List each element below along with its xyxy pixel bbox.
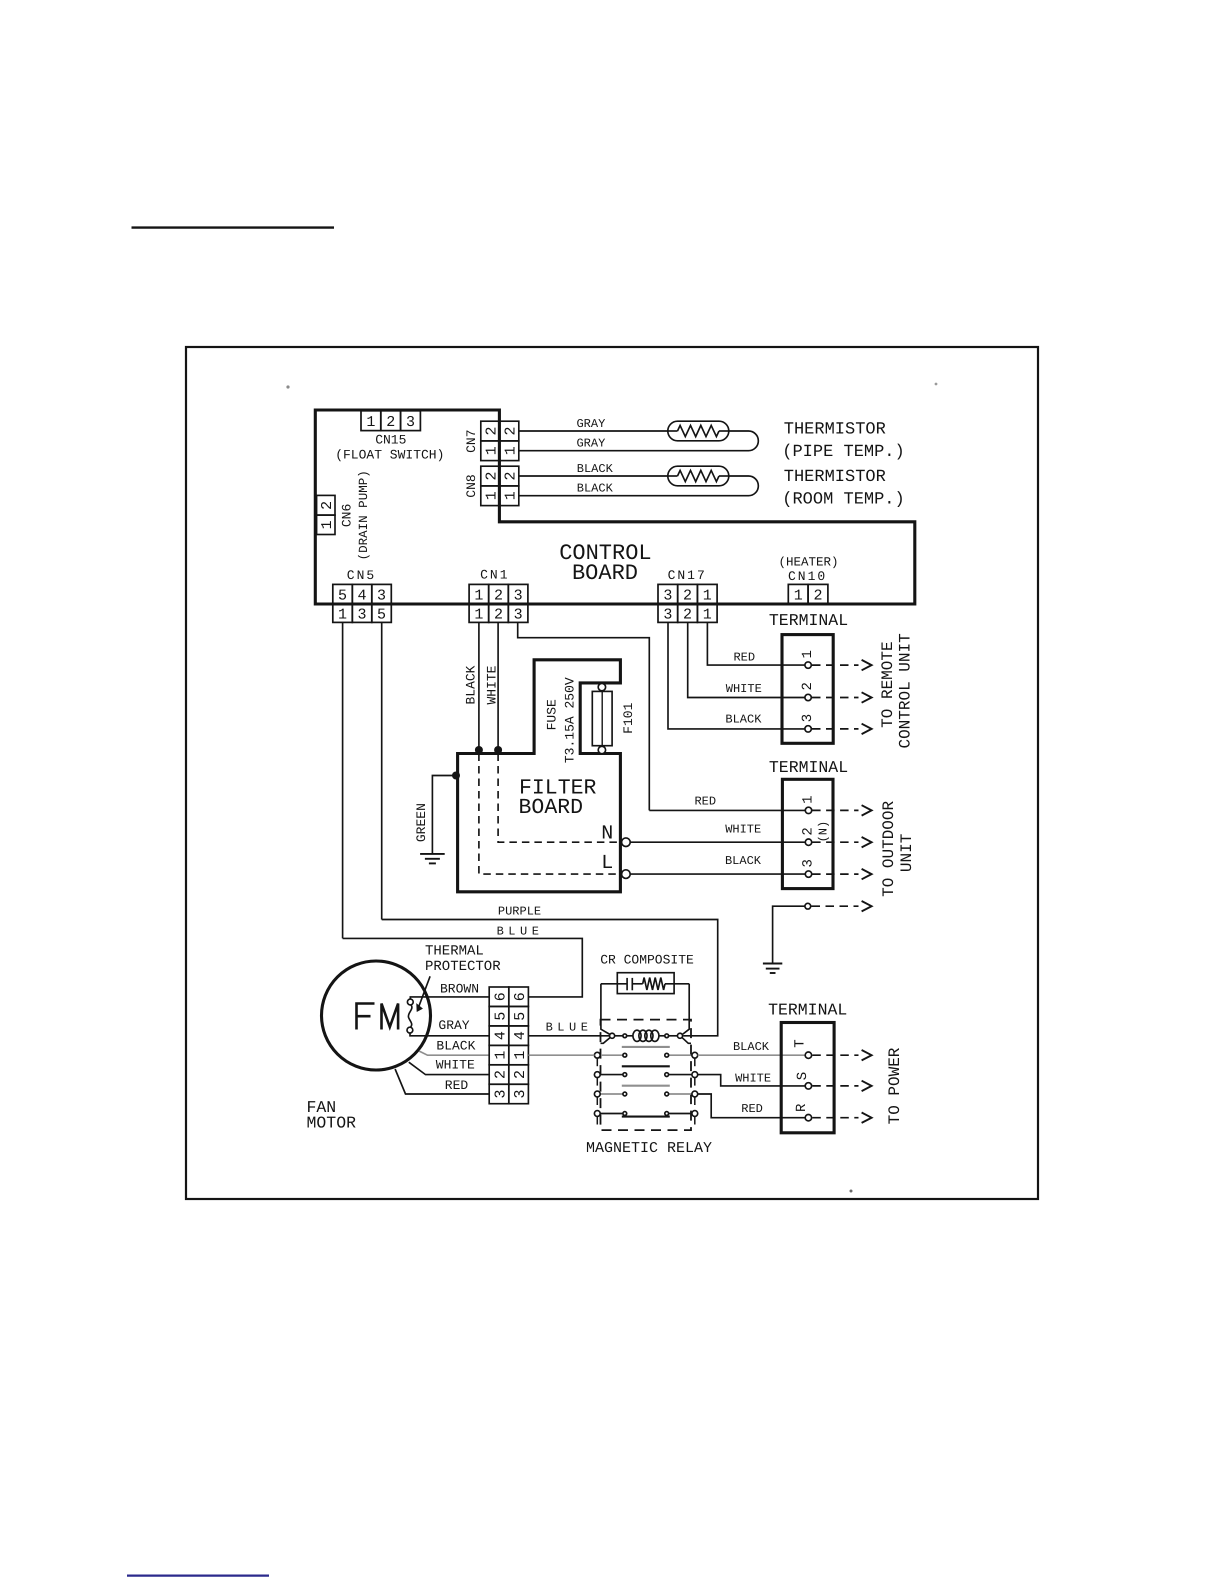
wire green to ground (432, 776, 456, 854)
wire white motor to pin2 (409, 1062, 489, 1074)
svg-text:(N): (N) (817, 821, 831, 843)
wire CN17 pin1 red (707, 622, 805, 665)
svg-text:BLUE: BLUE (546, 1020, 593, 1034)
fuse terminal bottom (598, 746, 605, 753)
svg-text:THERMAL: THERMAL (425, 944, 484, 960)
thermal protector element (407, 999, 413, 1033)
earth pin circle (805, 903, 811, 909)
svg-text:1: 1 (484, 491, 501, 500)
svg-text:5: 5 (492, 1012, 509, 1021)
connector CN1 pins 1 2 3 / 1 2 3 (469, 584, 528, 623)
terminal block outdoor (782, 779, 833, 888)
terminal block remote control (782, 635, 833, 744)
svg-text:3: 3 (663, 606, 672, 623)
svg-text:CN17: CN17 (668, 568, 707, 583)
svg-text:CN1: CN1 (480, 568, 509, 583)
svg-text:2: 2 (494, 606, 503, 623)
wire black from L to outdoor 3 (630, 873, 805, 875)
svg-text:CN15: CN15 (375, 432, 406, 447)
wire red relay row3 to power terminal (698, 1094, 806, 1118)
svg-text:6: 6 (512, 992, 529, 1001)
relay contact row 1 (black) bar (622, 1046, 670, 1048)
svg-text:2: 2 (484, 471, 501, 480)
svg-text:WHITE: WHITE (436, 1058, 475, 1073)
outdoor pin 2 (N) (805, 839, 811, 845)
wire CN1 pin3 red to outdoor terminal (518, 622, 650, 810)
svg-text:MAGNETIC RELAY: MAGNETIC RELAY (586, 1140, 712, 1157)
svg-text:2: 2 (503, 426, 520, 435)
svg-text:4: 4 (512, 1031, 529, 1040)
svg-text:2: 2 (492, 1070, 509, 1079)
svg-text:T3.15A 250V: T3.15A 250V (563, 677, 578, 763)
terminal L circle (622, 870, 631, 879)
ground symbol filter board (420, 854, 445, 864)
svg-text:TERMINAL: TERMINAL (769, 611, 848, 630)
svg-text:BROWN: BROWN (440, 982, 479, 997)
svg-text:THERMISTOR: THERMISTOR (784, 468, 886, 487)
svg-text:1: 1 (794, 587, 803, 604)
wire red motor to pin3 (395, 1069, 489, 1094)
relay contact row 1 (black) contacts (594, 1052, 697, 1066)
label FM (357, 1004, 399, 1030)
wire red to outdoor 1 (649, 809, 805, 811)
svg-text:THERMISTOR: THERMISTOR (784, 420, 886, 439)
wire CN17 pin3 black (668, 622, 805, 729)
thermistor pipe temp element (668, 421, 759, 451)
svg-text:BLUE: BLUE (497, 924, 544, 938)
svg-text:5: 5 (512, 1012, 529, 1021)
svg-text:RED: RED (694, 795, 716, 809)
svg-text:CN10: CN10 (788, 569, 827, 584)
svg-text:CN7: CN7 (464, 429, 479, 452)
fuse terminal top (598, 683, 605, 690)
relay contact row 3 (red) contacts (594, 1091, 697, 1105)
dashed lead remote 3 (812, 728, 859, 730)
svg-text:3: 3 (377, 587, 386, 604)
svg-text:3: 3 (800, 859, 816, 867)
diagram outer border (186, 347, 1038, 1199)
wire white relay row2 to power terminal (698, 1075, 806, 1086)
svg-text:BLACK: BLACK (463, 665, 478, 704)
wire CR left to coil (601, 984, 610, 1034)
relay contact row 2 (white) contacts (594, 1072, 697, 1086)
dashed lead power T (812, 1054, 858, 1056)
wire purple run (382, 920, 718, 1036)
svg-text:PURPLE: PURPLE (498, 905, 541, 919)
thermistor room temp element (668, 466, 759, 496)
dashed lead power S (812, 1085, 858, 1087)
svg-text:1: 1 (319, 520, 336, 529)
relay contact row 4 contacts (594, 1111, 697, 1125)
svg-text:6: 6 (492, 992, 509, 1001)
svg-text:UNIT: UNIT (898, 834, 916, 872)
relay contact row 2 (white) bar (622, 1065, 670, 1067)
terminal N circle (622, 838, 631, 847)
wire CN5 pin5 purple vertical (381, 622, 383, 919)
svg-text:1: 1 (492, 1051, 509, 1060)
wire blue connector pin4 to coil (528, 1035, 609, 1037)
wire CN7 pin2 gray to thermistor (519, 430, 668, 432)
svg-text:1: 1 (366, 414, 375, 431)
power pin S (805, 1083, 811, 1089)
svg-text:TO REMOTE: TO REMOTE (879, 641, 897, 727)
svg-text:3: 3 (512, 1089, 529, 1098)
svg-text:3: 3 (358, 606, 367, 623)
filter board outline (458, 660, 621, 892)
relay coil (610, 1030, 683, 1041)
connector CN15 (float switch) pins 1 2 3 (361, 411, 420, 431)
svg-text:CR COMPOSITE: CR COMPOSITE (600, 953, 694, 968)
bottom rule line (blue) (127, 1574, 269, 1576)
dashed black path inside filter board to L (479, 754, 621, 875)
svg-text:TERMINAL: TERMINAL (768, 1001, 847, 1020)
svg-text:WHITE: WHITE (725, 822, 761, 836)
dashed lead outdoor 1 (812, 809, 858, 811)
wire black motor to pin1 (419, 1051, 489, 1055)
svg-text:2: 2 (800, 827, 816, 835)
svg-text:GRAY: GRAY (576, 437, 605, 451)
wire CN8 pin2 black to thermistor (519, 475, 668, 477)
dashed lead outdoor 3 (812, 873, 858, 875)
svg-text:1: 1 (484, 446, 501, 455)
wire earth to ground (773, 906, 805, 963)
svg-text:GREEN: GREEN (414, 803, 429, 842)
relay contact row 3 (red) bar (622, 1085, 670, 1087)
svg-text:BLACK: BLACK (725, 854, 762, 868)
connector CN5 pins 5 4 3 / 1 3 5 (333, 584, 392, 623)
svg-text:1: 1 (800, 795, 816, 803)
junction dot (475, 746, 483, 754)
svg-text:WHITE: WHITE (484, 665, 499, 704)
wire CN17 pin2 white (688, 622, 805, 697)
svg-text:1: 1 (474, 587, 483, 604)
dashed lead earth (812, 905, 859, 907)
svg-text:1: 1 (338, 606, 347, 623)
svg-text:3: 3 (492, 1089, 509, 1098)
coil link right (682, 1038, 691, 1044)
ground symbol outdoor (763, 964, 782, 974)
dashed lead remote 1 (812, 664, 859, 666)
dashed lead power R (812, 1117, 858, 1119)
svg-text:BLACK: BLACK (577, 462, 614, 476)
dashed white path inside filter board to N (498, 754, 621, 843)
svg-text:1: 1 (503, 491, 520, 500)
wire CN1 pin2 white to filter board (497, 622, 499, 748)
svg-text:1: 1 (800, 650, 816, 658)
junction dot (494, 746, 502, 754)
svg-text:S: S (795, 1072, 811, 1080)
svg-text:FUSE: FUSE (544, 699, 559, 730)
top rule line (132, 226, 335, 228)
outdoor pin 1 (805, 807, 811, 813)
relay contact row 4 bar (622, 1116, 670, 1118)
svg-text:2: 2 (386, 414, 395, 431)
svg-text:3: 3 (514, 587, 523, 604)
svg-text:F101: F101 (621, 702, 636, 733)
fan motor circle FM (322, 961, 431, 1070)
svg-text:(DRAIN PUMP): (DRAIN PUMP) (357, 470, 371, 560)
svg-text:TERMINAL: TERMINAL (769, 758, 848, 777)
svg-text:TO POWER: TO POWER (886, 1047, 904, 1124)
svg-text:RED: RED (741, 1102, 763, 1116)
svg-text:(PIPE TEMP.): (PIPE TEMP.) (782, 443, 904, 462)
wire CN1 pin1 black to filter board (478, 622, 480, 748)
svg-text:(HEATER): (HEATER) (778, 556, 838, 570)
svg-text:1: 1 (703, 606, 712, 623)
svg-text:CN5: CN5 (347, 568, 376, 583)
svg-text:2: 2 (683, 587, 692, 604)
svg-text:PROTECTOR: PROTECTOR (425, 959, 501, 975)
svg-text:1: 1 (474, 606, 483, 623)
svg-text:5: 5 (377, 606, 386, 623)
junction dot green (452, 772, 460, 780)
scan speck top left (286, 385, 289, 388)
wire black relay row1 to power terminal (528, 1054, 594, 1056)
control board outline (315, 410, 915, 604)
svg-text:BOARD: BOARD (572, 561, 638, 586)
scan speck top right (935, 383, 938, 386)
svg-text:CONTROL UNIT: CONTROL UNIT (896, 633, 914, 748)
dashed lead remote 2 (812, 697, 859, 699)
svg-text:BLACK: BLACK (725, 713, 762, 727)
wire white from N to outdoor 2 (630, 841, 805, 843)
svg-text:4: 4 (492, 1031, 509, 1040)
remote pin 2 (805, 694, 811, 700)
outdoor pin 3 (805, 871, 811, 877)
svg-text:(FLOAT SWITCH): (FLOAT SWITCH) (335, 447, 444, 462)
power pin R (805, 1115, 811, 1121)
svg-text:RED: RED (733, 651, 755, 665)
svg-text:2: 2 (813, 587, 822, 604)
connector CN7 pins 2 1 (481, 421, 520, 460)
CR composite component (capacitor + resistor) (601, 973, 689, 994)
svg-text:CN8: CN8 (464, 474, 479, 497)
svg-text:2: 2 (319, 501, 336, 510)
wire CN5 pin1 blue vertical (342, 622, 344, 938)
svg-text:T: T (793, 1039, 809, 1047)
dashed lead outdoor 2 (812, 841, 858, 843)
wire blue run (343, 938, 583, 997)
svg-text:BOARD: BOARD (519, 796, 584, 820)
svg-text:L: L (601, 852, 613, 875)
svg-text:WHITE: WHITE (726, 682, 762, 696)
svg-text:2: 2 (683, 606, 692, 623)
power pin T (805, 1052, 811, 1058)
svg-text:WHITE: WHITE (735, 1071, 771, 1085)
svg-text:3: 3 (406, 414, 415, 431)
svg-text:GRAY: GRAY (438, 1018, 469, 1033)
scan speck bottom (850, 1190, 853, 1193)
svg-text:RED: RED (445, 1078, 469, 1093)
svg-text:2: 2 (503, 471, 520, 480)
terminal block power (781, 1023, 834, 1133)
svg-text:R: R (794, 1103, 810, 1112)
connector CN10 pins 1 2 (788, 584, 828, 604)
svg-text:N: N (601, 823, 613, 846)
wire CR right to coil (683, 984, 689, 1034)
svg-text:1: 1 (703, 587, 712, 604)
svg-text:BLACK: BLACK (577, 482, 614, 496)
fuse F101 body (592, 691, 612, 745)
wire CN8 pin1 black return (519, 495, 749, 497)
wire brown motor to pin6 (410, 997, 489, 999)
svg-text:3: 3 (663, 587, 672, 604)
svg-text:TO OUTDOOR: TO OUTDOOR (880, 800, 898, 896)
connector CN17 pins 3 2 1 / 3 2 1 (658, 584, 717, 623)
svg-text:2: 2 (800, 682, 816, 690)
wire gray motor to pin4 (410, 1033, 489, 1036)
svg-text:CN6: CN6 (340, 504, 355, 527)
svg-text:BLACK: BLACK (733, 1040, 770, 1054)
remote pin 1 (805, 662, 811, 668)
svg-text:GRAY: GRAY (576, 417, 605, 431)
svg-text:2: 2 (494, 587, 503, 604)
connector CN8 pins 2 1 (481, 466, 520, 505)
coil link left (601, 1038, 610, 1044)
svg-text:MOTOR: MOTOR (307, 1114, 357, 1133)
connector CN6 (drain pump) pins 2 1 (317, 495, 337, 534)
svg-text:5: 5 (338, 587, 347, 604)
wire CN7 pin1 gray return (519, 450, 749, 452)
svg-text:3: 3 (514, 606, 523, 623)
svg-text:(ROOM TEMP.): (ROOM TEMP.) (782, 491, 904, 510)
magnetic relay dashed box (601, 1020, 692, 1131)
svg-text:1: 1 (503, 446, 520, 455)
svg-text:BLACK: BLACK (436, 1038, 475, 1053)
svg-text:3: 3 (800, 714, 816, 722)
svg-text:2: 2 (512, 1070, 529, 1079)
svg-text:2: 2 (484, 426, 501, 435)
pointer arrow to thermal protector (418, 976, 431, 1010)
svg-text:1: 1 (512, 1051, 529, 1060)
motor connector 6 5 4 1 2 3 (489, 987, 529, 1104)
remote pin 3 (805, 726, 811, 732)
svg-text:4: 4 (358, 587, 367, 604)
